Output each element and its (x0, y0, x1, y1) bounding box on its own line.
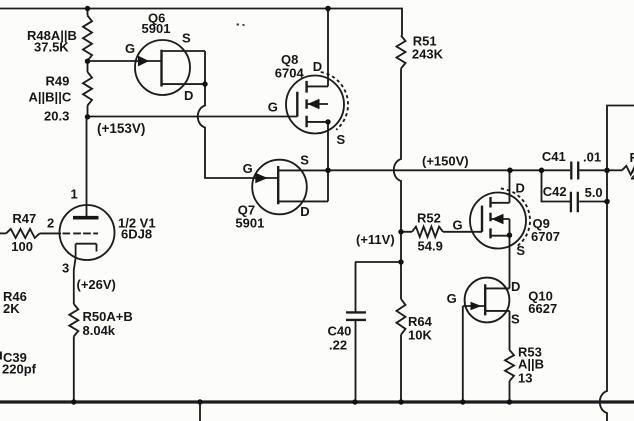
svg-text:S: S (182, 31, 191, 46)
svg-text:(+153V): (+153V) (97, 121, 145, 136)
svg-text:6627: 6627 (528, 301, 557, 316)
svg-text:5.0: 5.0 (585, 185, 603, 200)
svg-text:G: G (453, 218, 463, 233)
svg-text:S: S (300, 153, 309, 168)
svg-text:G: G (125, 41, 135, 56)
svg-text:10K: 10K (408, 328, 432, 343)
svg-text:13: 13 (518, 370, 532, 385)
svg-text:2: 2 (47, 216, 54, 231)
svg-text:S: S (516, 243, 525, 258)
svg-text:C42: C42 (543, 184, 567, 199)
svg-text:D: D (184, 88, 193, 103)
svg-text:S: S (337, 132, 346, 147)
svg-text:G: G (447, 291, 457, 306)
svg-text:A||B||C: A||B||C (29, 90, 72, 105)
svg-text:C40: C40 (328, 324, 352, 339)
svg-text:C41: C41 (542, 149, 566, 164)
svg-text:6707: 6707 (531, 229, 560, 244)
svg-text:R49: R49 (46, 74, 70, 89)
svg-text:220pf: 220pf (2, 362, 37, 377)
svg-text:2K: 2K (3, 301, 20, 316)
svg-text:D: D (516, 180, 525, 195)
svg-text:6DJ8: 6DJ8 (121, 227, 152, 242)
svg-text:100: 100 (11, 239, 33, 254)
svg-text:5901: 5901 (235, 216, 264, 231)
svg-text:243K: 243K (412, 47, 444, 62)
svg-text:S: S (511, 312, 520, 327)
svg-text:(+11V): (+11V) (356, 232, 395, 247)
svg-text:54.9: 54.9 (418, 238, 443, 253)
svg-text:D: D (300, 204, 309, 219)
svg-text:D: D (511, 279, 520, 294)
svg-text:G: G (268, 100, 278, 115)
svg-text:3: 3 (62, 261, 69, 276)
svg-text:.22: .22 (329, 337, 347, 352)
svg-text:.01: .01 (583, 150, 601, 165)
svg-text:6704: 6704 (275, 66, 305, 81)
svg-text:8.04k: 8.04k (83, 323, 116, 338)
svg-text:R: R (630, 150, 634, 165)
svg-text:37.5K: 37.5K (34, 40, 69, 55)
svg-text:R47: R47 (12, 211, 36, 226)
svg-text:(+150V): (+150V) (422, 154, 469, 169)
svg-text:5901: 5901 (142, 21, 171, 36)
svg-text:A||B: A||B (518, 357, 544, 372)
svg-text:1: 1 (71, 187, 78, 202)
svg-text:R52: R52 (417, 211, 441, 226)
svg-text:G: G (243, 161, 253, 176)
svg-text:R50A+B: R50A+B (83, 309, 133, 324)
svg-text:2: 2 (631, 167, 634, 182)
svg-text:20.3: 20.3 (44, 108, 69, 123)
svg-text:D: D (313, 59, 322, 74)
svg-text:(+26V): (+26V) (77, 277, 116, 292)
